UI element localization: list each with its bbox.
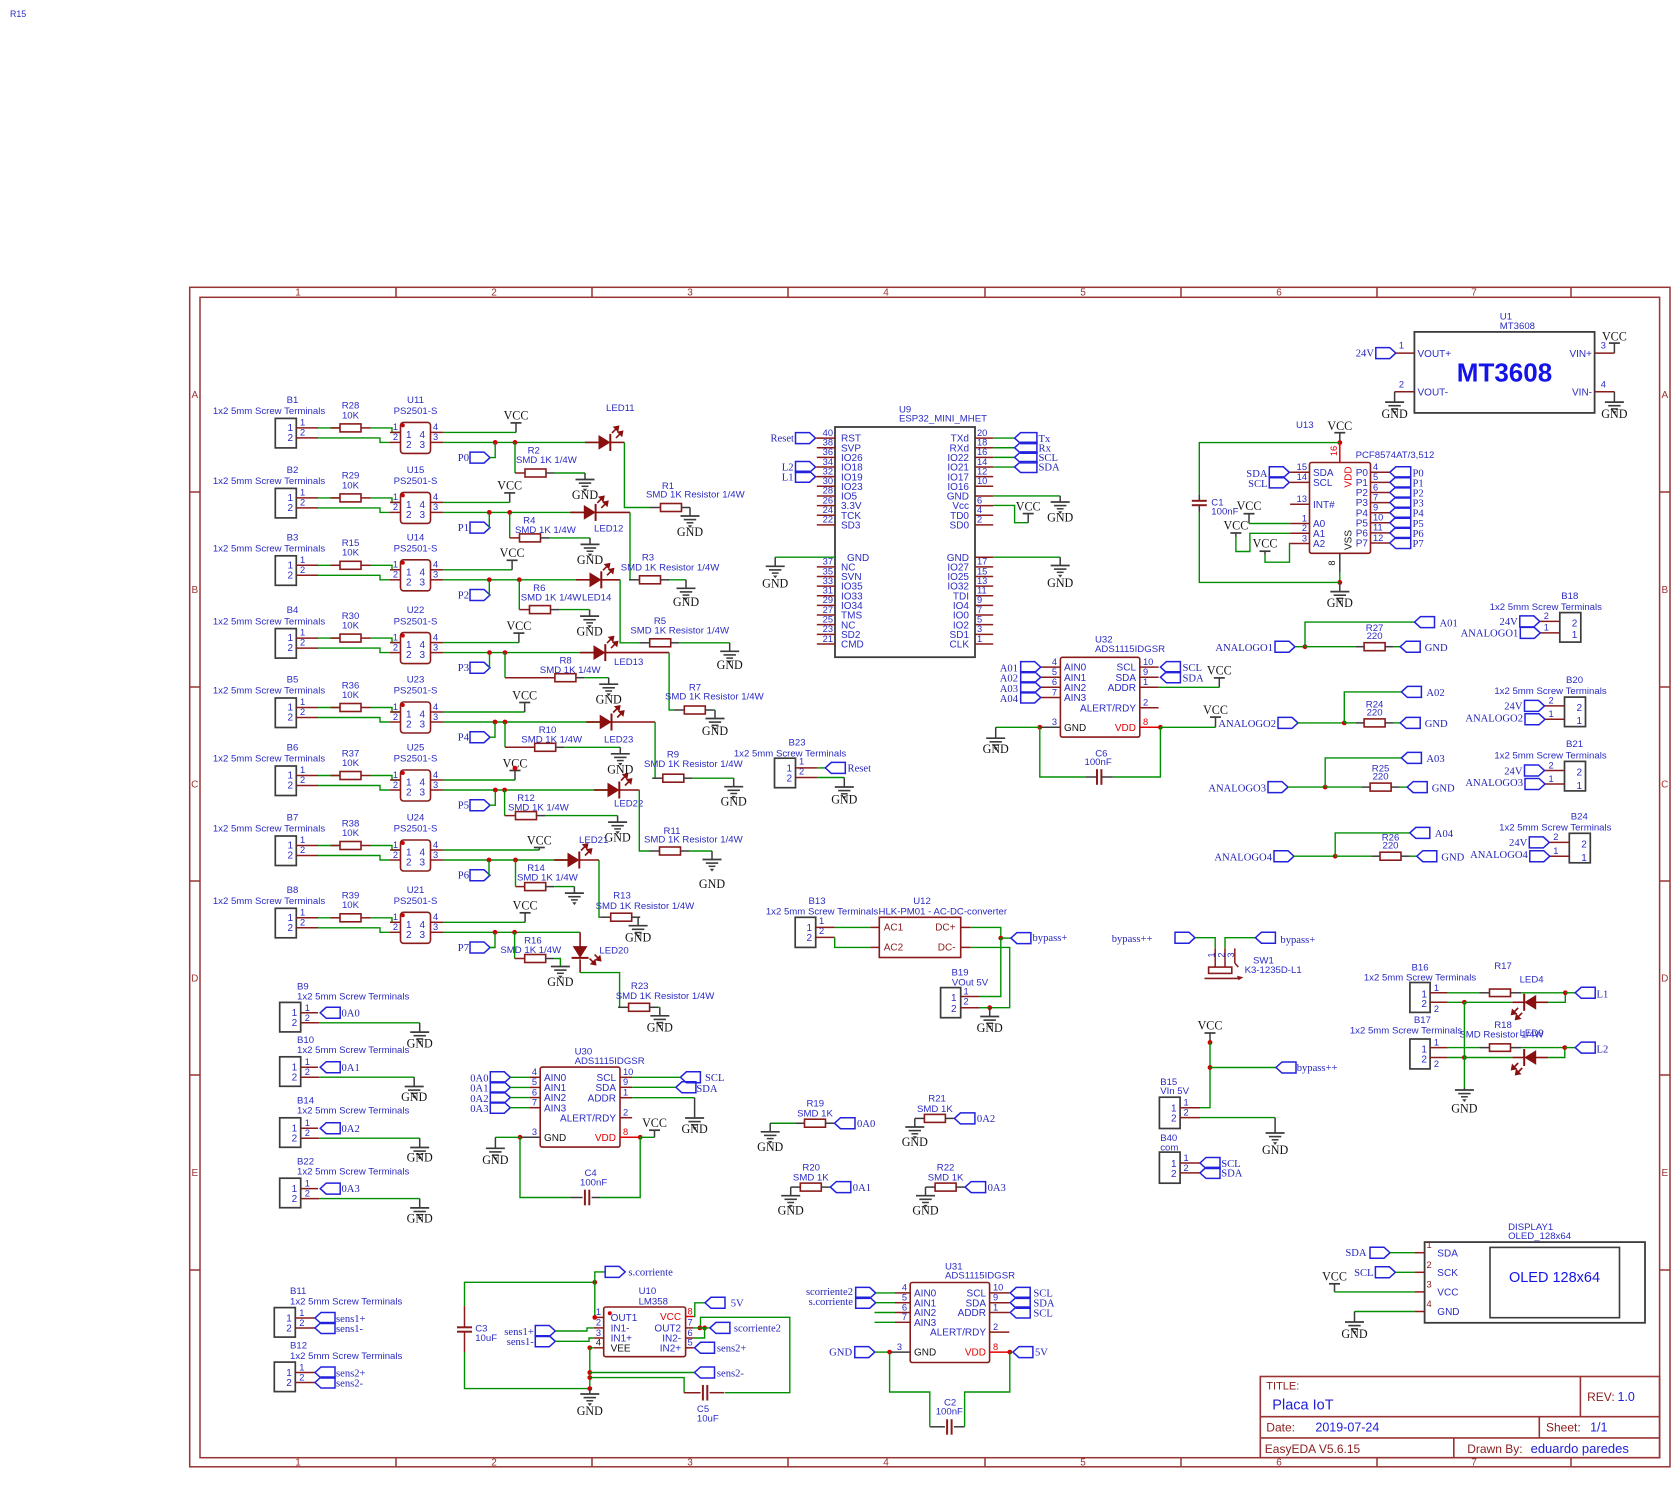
wire bbox=[371, 498, 401, 503]
LED LED9 bbox=[1464, 1028, 1548, 1074]
svg-text:SCK: SCK bbox=[1437, 1268, 1458, 1279]
svg-text:SD3: SD3 bbox=[841, 520, 861, 531]
svg-text:1: 1 bbox=[1184, 1153, 1189, 1163]
net flag scorriente2 bbox=[806, 1287, 895, 1298]
wire bbox=[371, 846, 401, 851]
resistor R10 SMD 1K 1/4W bbox=[505, 722, 583, 751]
LED LED21 bbox=[554, 835, 608, 869]
junction bbox=[1563, 990, 1568, 995]
svg-text:B20: B20 bbox=[1566, 675, 1583, 686]
svg-text:GND: GND bbox=[577, 1404, 603, 1418]
wire bbox=[1448, 1057, 1465, 1059]
svg-text:2: 2 bbox=[1549, 696, 1554, 706]
svg-text:1: 1 bbox=[299, 1308, 304, 1318]
screw terminal B23 bbox=[734, 738, 847, 788]
svg-text:OLED_128x64: OLED_128x64 bbox=[1508, 1231, 1572, 1242]
svg-text:bypass+: bypass+ bbox=[1280, 935, 1315, 946]
junction bbox=[1037, 725, 1042, 730]
svg-text:GND: GND bbox=[1047, 511, 1073, 525]
optocoupler U22 PS2501-S bbox=[390, 605, 443, 664]
svg-text:SDA: SDA bbox=[1345, 1248, 1367, 1259]
svg-text:GND: GND bbox=[544, 1133, 566, 1144]
svg-text:A: A bbox=[191, 390, 198, 401]
wire bbox=[1394, 722, 1401, 724]
svg-text:16: 16 bbox=[977, 447, 987, 457]
svg-text:2: 2 bbox=[1184, 1108, 1189, 1118]
svg-text:24V: 24V bbox=[1500, 617, 1519, 628]
VCC power flag bbox=[1322, 1270, 1347, 1292]
svg-text:1: 1 bbox=[300, 907, 305, 917]
svg-text:SMD 1K Resistor 1/4W: SMD 1K Resistor 1/4W bbox=[665, 691, 765, 702]
wire bbox=[371, 565, 401, 570]
svg-text:sens1-: sens1- bbox=[336, 1324, 364, 1335]
svg-text:2: 2 bbox=[300, 565, 305, 575]
svg-text:3: 3 bbox=[897, 1342, 902, 1352]
svg-text:VIn 5V: VIn 5V bbox=[1160, 1086, 1189, 1097]
svg-text:P2: P2 bbox=[458, 590, 469, 601]
svg-text:2: 2 bbox=[1421, 1054, 1427, 1065]
ground bbox=[757, 1123, 783, 1154]
switch SW1 K3-1235D-L1 bbox=[1205, 948, 1302, 980]
junction bbox=[887, 1350, 892, 1355]
ground bbox=[1341, 1312, 1367, 1341]
svg-text:GND: GND bbox=[1432, 783, 1455, 794]
wire bbox=[443, 849, 539, 851]
svg-text:ANALOGO1: ANALOGO1 bbox=[1461, 629, 1519, 640]
port P7 bbox=[458, 933, 495, 954]
svg-text:1: 1 bbox=[393, 912, 398, 922]
screw terminal B24 bbox=[1499, 811, 1612, 864]
net flag P6 bbox=[1390, 527, 1424, 540]
svg-text:VOUT-: VOUT- bbox=[1418, 387, 1449, 398]
svg-text:1: 1 bbox=[1143, 677, 1148, 687]
resistor R12 SMD 1K 1/4W bbox=[505, 790, 570, 820]
svg-text:2: 2 bbox=[1143, 698, 1148, 708]
svg-text:1: 1 bbox=[393, 770, 398, 780]
net flag P0 bbox=[1390, 467, 1424, 480]
junction bbox=[1462, 1000, 1467, 1005]
svg-text:2: 2 bbox=[1553, 832, 1558, 842]
resistor R29 10K bbox=[331, 471, 371, 502]
svg-text:26: 26 bbox=[823, 495, 833, 505]
svg-text:27: 27 bbox=[823, 605, 833, 615]
wire bbox=[993, 505, 1028, 522]
wire bbox=[465, 1282, 595, 1306]
wire bbox=[639, 790, 649, 851]
ac-dc converter U12 HLK-PM01 bbox=[870, 896, 1007, 958]
svg-text:2: 2 bbox=[1421, 999, 1427, 1010]
LED LED23 bbox=[586, 706, 655, 745]
ground bbox=[902, 1118, 928, 1149]
net flag Rx bbox=[993, 442, 1051, 454]
svg-text:1: 1 bbox=[1549, 709, 1554, 719]
svg-text:bypass++: bypass++ bbox=[1297, 1063, 1338, 1074]
ground bbox=[576, 610, 602, 639]
svg-text:1: 1 bbox=[1572, 630, 1578, 641]
svg-text:7: 7 bbox=[902, 1312, 907, 1322]
wire bbox=[980, 1007, 990, 1009]
net flag GND bbox=[1400, 641, 1448, 654]
svg-text:2: 2 bbox=[1171, 1114, 1177, 1125]
junction bbox=[513, 858, 518, 863]
VCC power flag bbox=[1198, 1019, 1223, 1043]
svg-text:VCC: VCC bbox=[1237, 499, 1262, 513]
svg-text:6: 6 bbox=[688, 1328, 693, 1338]
svg-text:3: 3 bbox=[419, 510, 425, 521]
net flag Reset bbox=[817, 762, 871, 774]
svg-text:SMD 1K Resistor 1/4W: SMD 1K Resistor 1/4W bbox=[630, 626, 730, 637]
svg-text:100nF: 100nF bbox=[936, 1406, 963, 1417]
junction bbox=[998, 936, 1003, 941]
wire bbox=[1325, 758, 1401, 787]
svg-text:1x2 5mm Screw Terminals: 1x2 5mm Screw Terminals bbox=[1350, 1025, 1463, 1036]
VCC power flag bbox=[500, 546, 525, 570]
wire bbox=[495, 1136, 520, 1138]
svg-text:DC+: DC+ bbox=[935, 923, 955, 934]
svg-text:VCC: VCC bbox=[1322, 1270, 1347, 1284]
svg-text:GND: GND bbox=[625, 931, 651, 945]
svg-text:2: 2 bbox=[299, 1318, 304, 1328]
screw terminal B12 bbox=[274, 1341, 402, 1392]
resistor R13 SMD 1K Resistor 1/4W bbox=[596, 890, 696, 921]
svg-text:2: 2 bbox=[300, 638, 305, 648]
VCC power flag bbox=[1327, 419, 1352, 443]
svg-text:2: 2 bbox=[1434, 1059, 1439, 1069]
net flag P3 bbox=[1390, 497, 1424, 510]
svg-text:SMD 1K 1/4W: SMD 1K 1/4W bbox=[521, 592, 583, 603]
VCC power flag bbox=[1223, 519, 1248, 537]
VCC power flag bbox=[1016, 499, 1041, 522]
svg-text:1: 1 bbox=[300, 835, 305, 845]
resistor R16 SMD 1K 1/4W bbox=[500, 932, 562, 962]
svg-text:14: 14 bbox=[1297, 472, 1307, 482]
net flag sens2- bbox=[590, 1367, 745, 1379]
svg-text:9: 9 bbox=[1373, 503, 1378, 513]
svg-text:8: 8 bbox=[1143, 717, 1148, 727]
resistor R3 SMD 1K Resistor 1/4W bbox=[621, 553, 721, 584]
svg-text:3: 3 bbox=[1302, 533, 1307, 543]
svg-text:REV:: REV: bbox=[1587, 1390, 1615, 1404]
svg-text:2: 2 bbox=[393, 780, 398, 790]
ground bbox=[604, 816, 630, 845]
svg-text:SMD 1K: SMD 1K bbox=[793, 1173, 829, 1184]
svg-text:2: 2 bbox=[300, 707, 305, 717]
net flag A04 bbox=[1410, 827, 1454, 840]
svg-text:5: 5 bbox=[902, 1293, 907, 1303]
wire bbox=[318, 575, 390, 580]
junction bbox=[1333, 854, 1338, 859]
svg-text:B21: B21 bbox=[1566, 739, 1583, 750]
wire bbox=[775, 556, 835, 558]
ground bbox=[699, 851, 725, 891]
svg-text:3: 3 bbox=[433, 432, 438, 442]
svg-text:B4: B4 bbox=[287, 605, 299, 616]
svg-text:1: 1 bbox=[1427, 1240, 1432, 1250]
wire bbox=[835, 926, 871, 928]
svg-text:1: 1 bbox=[300, 487, 305, 497]
svg-text:GND: GND bbox=[912, 1204, 938, 1218]
svg-text:GND: GND bbox=[977, 1021, 1003, 1035]
U13 pin 16 VDD wire bbox=[1329, 443, 1340, 463]
svg-text:2: 2 bbox=[1572, 618, 1578, 629]
svg-text:9: 9 bbox=[977, 595, 982, 605]
svg-text:GND: GND bbox=[673, 595, 699, 609]
svg-text:100nF: 100nF bbox=[1085, 757, 1112, 768]
resistor R11 SMD 1K Resistor 1/4W bbox=[644, 826, 744, 855]
svg-text:1: 1 bbox=[1434, 1038, 1439, 1048]
svg-text:VCC: VCC bbox=[527, 833, 552, 847]
svg-text:14: 14 bbox=[977, 457, 987, 467]
svg-text:B17: B17 bbox=[1414, 1015, 1431, 1026]
port Reset bbox=[770, 433, 816, 445]
screw terminal B11 bbox=[274, 1286, 402, 1337]
junction bbox=[1303, 644, 1308, 649]
wire bbox=[1236, 533, 1290, 551]
VCC power flag bbox=[1237, 499, 1262, 523]
svg-text:B13: B13 bbox=[808, 896, 825, 907]
svg-text:B1: B1 bbox=[287, 395, 299, 406]
resistor R1 SMD 1K Resistor 1/4W bbox=[646, 481, 746, 512]
ground bbox=[1381, 392, 1407, 422]
port L1 bbox=[782, 471, 817, 483]
svg-text:4: 4 bbox=[433, 560, 438, 570]
svg-text:CLK: CLK bbox=[950, 640, 970, 651]
wire bbox=[443, 501, 510, 503]
svg-text:R17: R17 bbox=[1494, 961, 1512, 972]
wire bbox=[371, 428, 401, 433]
svg-text:SMD 1K: SMD 1K bbox=[797, 1109, 833, 1120]
svg-text:ADS1115IDGSR: ADS1115IDGSR bbox=[575, 1056, 645, 1067]
svg-text:2: 2 bbox=[287, 570, 293, 581]
junction bbox=[487, 650, 492, 655]
svg-text:2: 2 bbox=[292, 1073, 298, 1084]
net flag A01 bbox=[1000, 662, 1041, 675]
wire bbox=[318, 775, 340, 777]
svg-text:2: 2 bbox=[292, 1018, 298, 1029]
net flag 24V bbox=[1509, 837, 1549, 849]
ground bbox=[547, 967, 573, 990]
svg-text:12: 12 bbox=[977, 466, 987, 476]
svg-text:ANALOGO1: ANALOGO1 bbox=[1215, 643, 1273, 654]
wire bbox=[1200, 1043, 1210, 1108]
wire bbox=[465, 1352, 590, 1389]
svg-text:SMD 1K Resistor 1/4W: SMD 1K Resistor 1/4W bbox=[646, 490, 746, 501]
wire bbox=[971, 927, 1001, 938]
svg-text:2: 2 bbox=[287, 923, 293, 934]
ground bbox=[647, 1007, 673, 1034]
boost converter U1 MT3608 bbox=[1395, 312, 1615, 413]
net flag SCL bbox=[1200, 1158, 1241, 1170]
svg-text:2: 2 bbox=[393, 432, 398, 442]
LED LED14 bbox=[576, 564, 620, 604]
wire bbox=[318, 707, 340, 709]
svg-text:ANALOGO3: ANALOGO3 bbox=[1465, 778, 1523, 789]
svg-text:LED4: LED4 bbox=[1520, 975, 1545, 986]
wire bbox=[1113, 727, 1161, 777]
svg-text:15: 15 bbox=[977, 566, 987, 576]
resistor R8 SMD 1K 1/4W bbox=[505, 653, 602, 682]
VCC power flag bbox=[497, 479, 522, 503]
wire bbox=[629, 512, 630, 579]
svg-text:VCC: VCC bbox=[1223, 519, 1248, 533]
screw terminal B40 com bbox=[1159, 1133, 1200, 1183]
net flag SDA bbox=[1160, 672, 1204, 685]
wire bbox=[693, 1303, 705, 1317]
svg-text:K3-1235D-L1: K3-1235D-L1 bbox=[1245, 965, 1302, 976]
svg-text:2: 2 bbox=[406, 577, 412, 588]
display DISPLAY1 OLED_128x64 bbox=[1425, 1222, 1645, 1323]
VCC power flag bbox=[503, 756, 528, 780]
svg-text:3: 3 bbox=[433, 780, 438, 790]
svg-text:5V: 5V bbox=[1035, 1347, 1048, 1358]
screw terminal B16 bbox=[1364, 963, 1477, 1014]
net flag 0A1 bbox=[470, 1082, 530, 1095]
junction bbox=[518, 1135, 523, 1140]
wire bbox=[1448, 992, 1480, 994]
svg-text:0A2: 0A2 bbox=[342, 1124, 360, 1135]
svg-text:A2: A2 bbox=[1313, 539, 1326, 550]
svg-text:PS2501-S: PS2501-S bbox=[394, 896, 438, 907]
svg-text:scorriente2: scorriente2 bbox=[734, 1323, 781, 1334]
net flag 24V bbox=[1356, 348, 1396, 360]
wire bbox=[1298, 722, 1344, 724]
resistor R17 bbox=[1480, 961, 1522, 996]
svg-text:GND: GND bbox=[762, 577, 788, 591]
junction bbox=[513, 766, 518, 771]
svg-text:10uF: 10uF bbox=[475, 1333, 497, 1344]
screw terminal B7 bbox=[213, 813, 326, 866]
svg-text:E: E bbox=[191, 1168, 198, 1179]
ground bbox=[721, 778, 747, 808]
svg-text:2019-07-24: 2019-07-24 bbox=[1315, 1421, 1379, 1435]
junction bbox=[587, 1345, 592, 1350]
svg-text:1.0: 1.0 bbox=[1618, 1390, 1635, 1404]
VCC power flag bbox=[642, 1116, 667, 1137]
svg-text:21: 21 bbox=[823, 634, 833, 644]
svg-text:VCC: VCC bbox=[1327, 419, 1352, 433]
resistor R30 10K bbox=[331, 611, 371, 642]
svg-text:6: 6 bbox=[977, 495, 982, 505]
net flag bypass++ bbox=[1112, 932, 1195, 945]
svg-text:3: 3 bbox=[419, 440, 425, 451]
svg-text:OUT1: OUT1 bbox=[611, 1313, 638, 1324]
svg-text:VOUT+: VOUT+ bbox=[1418, 349, 1452, 360]
svg-text:L1: L1 bbox=[782, 472, 794, 483]
resistor R23 SMD 1K Resistor 1/4W bbox=[616, 981, 716, 1011]
svg-text:SCL: SCL bbox=[705, 1073, 724, 1084]
wire bbox=[318, 637, 340, 639]
svg-text:1x2 5mm Screw Terminals: 1x2 5mm Screw Terminals bbox=[213, 544, 326, 555]
svg-text:A02: A02 bbox=[1426, 688, 1444, 699]
wire bbox=[835, 937, 871, 947]
net flag sens1+ bbox=[504, 1326, 555, 1339]
svg-text:2: 2 bbox=[393, 570, 398, 580]
wire bbox=[1159, 686, 1220, 688]
svg-text:24V: 24V bbox=[1356, 349, 1375, 360]
svg-text:2: 2 bbox=[1576, 703, 1582, 714]
svg-text:2: 2 bbox=[286, 1378, 292, 1389]
net flag 0A2 bbox=[320, 1123, 360, 1135]
net flag P2 bbox=[1390, 487, 1424, 500]
svg-text:2: 2 bbox=[1302, 523, 1307, 533]
svg-text:11: 11 bbox=[977, 586, 987, 596]
svg-text:ADS1115IDGSR: ADS1115IDGSR bbox=[945, 1271, 1015, 1282]
wire bbox=[545, 815, 618, 817]
svg-text:100nF: 100nF bbox=[580, 1178, 607, 1189]
net flag ANALOGO2 bbox=[1218, 717, 1298, 730]
net flag L2 bbox=[1565, 1042, 1608, 1055]
junction bbox=[702, 1326, 707, 1331]
svg-text:1: 1 bbox=[1549, 774, 1554, 784]
svg-text:U24: U24 bbox=[407, 813, 425, 824]
svg-text:B5: B5 bbox=[287, 675, 299, 686]
net flag 24V bbox=[1504, 765, 1544, 777]
wire bbox=[1548, 995, 1565, 1003]
net flag 0A3 bbox=[470, 1102, 530, 1115]
net flag ANALOGO1 bbox=[1215, 641, 1295, 654]
net flag 0A2 bbox=[470, 1092, 530, 1105]
wire bbox=[443, 569, 512, 571]
VCC power flag bbox=[506, 619, 531, 643]
wire bbox=[993, 495, 1060, 497]
VCC power flag bbox=[512, 688, 537, 712]
net flag Tx bbox=[993, 433, 1051, 445]
svg-text:ANALOGO2: ANALOGO2 bbox=[1465, 714, 1523, 725]
svg-text:24V: 24V bbox=[1504, 766, 1523, 777]
svg-text:1: 1 bbox=[596, 1307, 601, 1317]
svg-text:13: 13 bbox=[1297, 494, 1307, 504]
svg-text:3: 3 bbox=[687, 1458, 693, 1469]
svg-text:GND: GND bbox=[647, 1021, 673, 1035]
net flag A01 bbox=[1415, 617, 1458, 630]
svg-text:3: 3 bbox=[977, 624, 982, 634]
net flag P1 bbox=[1390, 477, 1424, 490]
svg-text:1: 1 bbox=[977, 634, 982, 644]
junction bbox=[487, 577, 492, 582]
svg-text:220: 220 bbox=[1367, 707, 1383, 718]
screw terminal B9 bbox=[280, 982, 410, 1032]
resistor R6 SMD 1K 1/4W bbox=[519, 580, 582, 614]
wire bbox=[443, 431, 516, 433]
net flag 5V bbox=[1013, 1347, 1048, 1359]
wire bbox=[554, 959, 560, 967]
ground bbox=[1327, 582, 1353, 610]
svg-text:1x2 5mm Screw Terminals: 1x2 5mm Screw Terminals bbox=[213, 686, 326, 697]
svg-text:1x2 5mm Screw Terminals: 1x2 5mm Screw Terminals bbox=[297, 992, 410, 1003]
svg-text:8: 8 bbox=[1327, 560, 1337, 565]
svg-text:4: 4 bbox=[1052, 657, 1057, 667]
svg-text:2: 2 bbox=[393, 712, 398, 722]
wire bbox=[443, 789, 608, 791]
svg-text:1: 1 bbox=[1576, 716, 1582, 727]
svg-text:2: 2 bbox=[300, 775, 305, 785]
svg-text:1: 1 bbox=[299, 1363, 304, 1373]
svg-text:GND: GND bbox=[1451, 1101, 1477, 1115]
net flag SCL bbox=[993, 452, 1058, 464]
svg-text:1/1: 1/1 bbox=[1590, 1421, 1607, 1435]
svg-text:10: 10 bbox=[993, 1283, 1003, 1293]
svg-text:OLED 128x64: OLED 128x64 bbox=[1509, 1270, 1600, 1286]
svg-text:4: 4 bbox=[433, 770, 438, 780]
svg-text:ANALOGO4: ANALOGO4 bbox=[1214, 852, 1272, 863]
svg-text:10: 10 bbox=[977, 476, 987, 486]
svg-text:SMD 1K Resistor 1/4W: SMD 1K Resistor 1/4W bbox=[644, 835, 744, 846]
svg-text:2: 2 bbox=[1576, 767, 1582, 778]
svg-text:3: 3 bbox=[419, 650, 425, 661]
resistor R25 220 bbox=[1325, 764, 1399, 792]
svg-text:GND: GND bbox=[604, 831, 630, 845]
svg-text:R15: R15 bbox=[10, 9, 26, 19]
